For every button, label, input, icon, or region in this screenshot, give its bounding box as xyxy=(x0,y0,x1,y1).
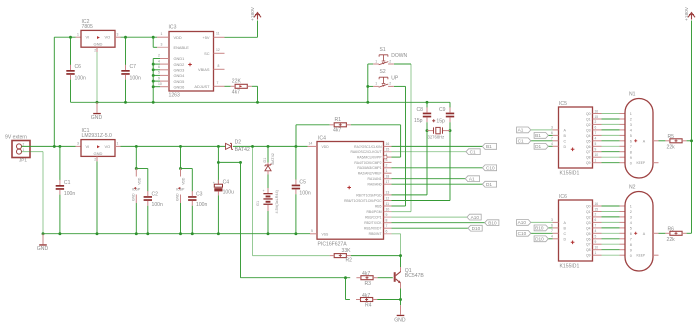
net flag B1 xyxy=(482,144,496,150)
svg-text:2: 2 xyxy=(595,213,597,217)
svg-text:C2: C2 xyxy=(152,191,159,197)
wire R4 to emitter node xyxy=(377,299,400,301)
svg-text:VBIAS: VBIAS xyxy=(198,67,210,72)
svg-text:4: 4 xyxy=(595,229,597,233)
svg-text:2: 2 xyxy=(595,120,597,124)
svg-text:N2: N2 xyxy=(629,185,636,191)
svg-text:100n: 100n xyxy=(196,202,207,208)
svg-text:1: 1 xyxy=(161,32,163,36)
svg-text:22k: 22k xyxy=(667,237,676,243)
svg-text:GND: GND xyxy=(176,193,180,201)
capacitor C3 xyxy=(191,169,193,192)
wire IC2 gnd down xyxy=(96,52,98,102)
diode D2 BAT42 xyxy=(226,143,232,149)
svg-text:VDD: VDD xyxy=(174,35,182,40)
svg-text:R3: R3 xyxy=(365,281,372,287)
net flag C10 xyxy=(482,165,496,171)
svg-text:IC5P: IC5P xyxy=(132,188,141,192)
svg-text:C9: C9 xyxy=(439,107,446,113)
wire RA7 to B1 xyxy=(392,145,483,147)
wire D1 to battery xyxy=(267,175,269,189)
switch S1 DOWN xyxy=(379,55,389,65)
svg-text:8: 8 xyxy=(386,219,388,223)
svg-text:Q5: Q5 xyxy=(586,232,591,236)
svg-text:4: 4 xyxy=(595,137,597,141)
svg-text:1263: 1263 xyxy=(169,93,180,99)
node C7 top xyxy=(124,36,127,39)
svg-text:4k7: 4k7 xyxy=(333,128,341,134)
pin GND2 xyxy=(153,63,160,65)
svg-text:6: 6 xyxy=(630,232,632,236)
svg-text:6: 6 xyxy=(551,224,553,228)
ground rail upper xyxy=(71,101,451,103)
svg-text:PIC16F627A: PIC16F627A xyxy=(318,241,348,247)
svg-text:+180V: +180V xyxy=(250,6,256,21)
svg-text:GND: GND xyxy=(94,42,103,47)
wire vertical 9V feed xyxy=(53,37,55,146)
svg-text:7: 7 xyxy=(630,145,632,149)
net flag A10 xyxy=(467,214,481,220)
svg-text:6: 6 xyxy=(158,65,160,69)
ic IC5 K155ID1 box xyxy=(559,107,593,168)
svg-text:VDD: VDD xyxy=(182,177,186,185)
wire to tube xyxy=(602,254,620,256)
capacitor C9 xyxy=(446,113,454,115)
svg-text:Q4: Q4 xyxy=(586,134,591,138)
svg-text:9: 9 xyxy=(630,156,632,160)
svg-text:Q3: Q3 xyxy=(586,221,591,225)
capacitor C2 xyxy=(147,169,149,192)
wire +180V right bus xyxy=(691,21,693,234)
svg-text:3: 3 xyxy=(630,123,632,127)
ic IC6 K155ID1 box xyxy=(559,200,593,261)
resistor R4 4k7 xyxy=(361,298,373,302)
wire adjust to trimmer xyxy=(225,85,231,87)
svg-text:GND: GND xyxy=(394,317,406,323)
svg-text:6: 6 xyxy=(551,131,553,135)
svg-text:4: 4 xyxy=(630,221,632,225)
wire 9V rail to IC2 VI xyxy=(54,36,75,38)
wire RA3 to C10 xyxy=(392,167,483,169)
svg-text:B1: B1 xyxy=(535,133,541,138)
svg-text:2: 2 xyxy=(94,158,96,162)
wire to tube xyxy=(602,134,620,136)
pin 6 RB0/INT xyxy=(384,233,392,235)
pin IC6 input C xyxy=(553,232,559,234)
svg-text:VI: VI xyxy=(86,35,90,40)
svg-text:C7: C7 xyxy=(130,64,137,70)
svg-text:BAT42: BAT42 xyxy=(235,147,250,153)
nixie tube N1 xyxy=(625,99,653,179)
svg-text:RA4/T0CKI/CMP2: RA4/T0CKI/CMP2 xyxy=(354,161,381,165)
svg-text:0: 0 xyxy=(630,254,632,258)
svg-text:KEEP: KEEP xyxy=(637,161,646,165)
net flag B10 xyxy=(546,227,553,229)
pin IC5 output Q1 xyxy=(593,118,602,120)
wire to tube xyxy=(602,243,620,245)
svg-text:Q4: Q4 xyxy=(586,226,591,230)
net flag B10 xyxy=(485,220,499,226)
svg-text:Q2: Q2 xyxy=(586,123,591,127)
svg-text:GND4: GND4 xyxy=(174,73,186,78)
svg-text:+: + xyxy=(263,189,265,193)
net flag C1 xyxy=(528,140,552,142)
wire RB5 to S2 xyxy=(392,205,406,207)
svg-text:15: 15 xyxy=(595,207,599,211)
svg-text:GND3: GND3 xyxy=(174,68,185,73)
svg-text:Q0: Q0 xyxy=(586,112,591,116)
svg-text:11: 11 xyxy=(216,31,220,35)
svg-text:GND: GND xyxy=(131,193,135,201)
net flag A1 xyxy=(528,129,552,131)
svg-text:RB4/PGM: RB4/PGM xyxy=(366,210,381,214)
svg-text:6: 6 xyxy=(630,140,632,144)
pin IC3 SC 12 xyxy=(214,52,225,54)
svg-text:C: C xyxy=(564,232,567,236)
svg-text:32768Hz: 32768Hz xyxy=(428,135,445,140)
wire to tube xyxy=(602,211,620,213)
svg-text:2: 2 xyxy=(389,82,391,86)
svg-text:Q7: Q7 xyxy=(586,243,591,247)
battery G1 xyxy=(267,188,269,193)
capacitor C1 xyxy=(59,146,61,180)
svg-text:14: 14 xyxy=(309,142,313,146)
wire IC3 gnd bus xyxy=(152,59,154,103)
svg-text:A1: A1 xyxy=(518,128,524,133)
wire C4 column xyxy=(217,146,219,183)
svg-text:C6: C6 xyxy=(75,64,82,70)
svg-text:C4: C4 xyxy=(223,179,230,185)
svg-text:R1: R1 xyxy=(335,117,342,123)
svg-text:Q1: Q1 xyxy=(586,210,591,214)
svg-text:15p: 15p xyxy=(414,118,423,124)
pin IC3 VBIAS 8 xyxy=(214,68,225,70)
svg-text:+180V: +180V xyxy=(684,6,690,21)
wire to +180V xyxy=(225,36,258,38)
svg-text:0: 0 xyxy=(630,161,632,165)
wire S1 left xyxy=(368,63,373,65)
svg-text:K155ID1: K155ID1 xyxy=(560,171,580,177)
svg-text:5: 5 xyxy=(158,71,160,75)
svg-text:B10: B10 xyxy=(488,221,497,226)
svg-text:GND: GND xyxy=(37,246,49,252)
svg-text:4: 4 xyxy=(551,142,553,146)
wire R4 branch xyxy=(345,278,347,300)
svg-text:R4: R4 xyxy=(365,303,372,309)
wire to tube xyxy=(602,162,620,164)
svg-text:7: 7 xyxy=(551,136,553,140)
svg-text:Q2: Q2 xyxy=(586,215,591,219)
wire D2 to backed rail xyxy=(233,145,308,147)
svg-text:9: 9 xyxy=(595,240,597,244)
svg-text:D1: D1 xyxy=(486,182,492,187)
svg-text:9: 9 xyxy=(595,148,597,152)
svg-text:BC547B: BC547B xyxy=(405,273,425,279)
svg-text:8: 8 xyxy=(630,150,632,154)
wire C5 column xyxy=(295,146,297,179)
svg-text:D1: D1 xyxy=(535,144,541,149)
svg-text:4: 4 xyxy=(630,129,632,133)
svg-text:7: 7 xyxy=(386,224,388,228)
svg-text:C1: C1 xyxy=(470,150,476,155)
svg-text:1: 1 xyxy=(375,59,377,63)
svg-text:G1: G1 xyxy=(256,201,260,206)
wire R3 to base xyxy=(378,277,393,279)
pin anode N1 xyxy=(634,139,637,142)
wire C6 bottom xyxy=(70,80,72,103)
pin IC6 output Q7 xyxy=(593,243,602,245)
wire to tube xyxy=(602,227,620,229)
svg-text:5: 5 xyxy=(311,229,313,233)
pin 15 RA6/OSC2/CLKOUT xyxy=(384,151,392,153)
svg-text:BAT42: BAT42 xyxy=(271,153,275,164)
pin 3 RA4/T0CKI/CMP2 xyxy=(384,161,392,163)
svg-text:9: 9 xyxy=(158,76,160,80)
svg-text:8: 8 xyxy=(630,243,632,247)
pin IC6 output Q5 xyxy=(593,232,602,234)
wire RB4 to S1 (pale) xyxy=(392,211,412,213)
svg-text:RB3/CCP1: RB3/CCP1 xyxy=(365,216,381,220)
wire S2 left xyxy=(368,85,373,87)
wire IC1 gnd down xyxy=(96,161,98,233)
svg-text:UP: UP xyxy=(391,75,399,81)
net flag D10 xyxy=(468,225,482,231)
svg-text:2: 2 xyxy=(630,210,632,214)
pin IC5 output Q4 xyxy=(593,134,602,136)
wire to tube xyxy=(602,118,620,120)
svg-text:4k7: 4k7 xyxy=(362,293,370,299)
pin IC6 output Q3 xyxy=(593,221,602,223)
pin IC5 output Q3 xyxy=(593,129,602,131)
pin IC5 output Q2 xyxy=(593,123,602,125)
crystal Q 32768Hz xyxy=(426,129,429,132)
svg-text:RA7/OSC1/CLKIN: RA7/OSC1/CLKIN xyxy=(354,145,382,149)
net flag B1 xyxy=(546,134,553,136)
svg-text:3: 3 xyxy=(77,142,79,146)
svg-text:IC6: IC6 xyxy=(559,194,567,200)
wire IC2 out xyxy=(121,36,158,38)
op-amp IC3 box xyxy=(169,32,214,92)
svg-text:VO: VO xyxy=(105,35,111,40)
svg-text:18: 18 xyxy=(386,175,390,179)
svg-text:7: 7 xyxy=(595,131,597,135)
wire RB3 to A10 (pale) xyxy=(392,216,468,218)
svg-text:6: 6 xyxy=(595,126,597,130)
svg-text:RA2/AN2/VREF: RA2/AN2/VREF xyxy=(358,172,382,176)
svg-text:100n: 100n xyxy=(299,191,310,197)
svg-text:SC: SC xyxy=(204,51,210,56)
pin IC6 input A xyxy=(553,221,559,223)
wire to tube xyxy=(602,129,620,131)
svg-text:VI: VI xyxy=(86,144,90,149)
pin 8 RB2/TX/CK xyxy=(384,222,392,224)
wire emitter to gnd xyxy=(400,300,402,306)
svg-text:7: 7 xyxy=(551,229,553,233)
pin IC6 output Q1 xyxy=(593,211,602,213)
wire to tube xyxy=(602,113,620,115)
pin GND6 xyxy=(153,86,160,88)
wire emitter xyxy=(400,283,402,289)
pin 16 RA7/OSC1/CLKIN xyxy=(384,145,392,147)
svg-text:GND1: GND1 xyxy=(174,56,185,61)
resistor 22K/4k7 trimmer xyxy=(235,84,247,88)
pin IC5 output Q0 xyxy=(593,113,602,115)
svg-text:12: 12 xyxy=(216,48,220,52)
svg-text:RB6/T1OSO/T1CKI/PGC: RB6/T1OSO/T1CKI/PGC xyxy=(344,199,382,203)
net flag A1 xyxy=(465,176,479,182)
pin 1 RA2/AN2/VREF xyxy=(384,172,392,174)
svg-text:A1: A1 xyxy=(469,177,475,182)
wire to tube xyxy=(602,123,620,125)
wire to tube xyxy=(602,205,620,207)
wire RA1 to A1 xyxy=(392,178,466,180)
svg-text:100n: 100n xyxy=(75,75,86,81)
wire C9 to crystal xyxy=(449,122,451,130)
wire S1 to RB4 (pale) xyxy=(410,64,412,212)
svg-text:Q7: Q7 xyxy=(586,150,591,154)
svg-text:RB0/INT: RB0/INT xyxy=(369,232,382,236)
svg-text:IC4: IC4 xyxy=(318,135,326,141)
pin 7 RB1/RX/DT xyxy=(384,227,392,229)
svg-text:JP1: JP1 xyxy=(19,158,27,163)
svg-text:22k: 22k xyxy=(667,144,676,150)
wire R5 to +180V xyxy=(687,140,692,142)
svg-text:15: 15 xyxy=(386,148,390,152)
svg-text:B10: B10 xyxy=(535,226,544,231)
wire to tube xyxy=(602,249,620,251)
svg-text:ADJUST: ADJUST xyxy=(194,84,210,89)
svg-text:5: 5 xyxy=(595,142,597,146)
svg-text:D10: D10 xyxy=(535,237,544,242)
wire C8 top xyxy=(426,102,428,108)
svg-text:D: D xyxy=(564,145,567,149)
capacitor C4 100u polarized xyxy=(217,180,219,184)
pin GND3 xyxy=(153,69,160,71)
pin IC6 output Q6 xyxy=(593,238,602,240)
svg-text:5: 5 xyxy=(630,227,632,231)
svg-text:4: 4 xyxy=(386,153,388,157)
svg-text:7: 7 xyxy=(217,81,219,85)
svg-text:7805: 7805 xyxy=(82,24,93,30)
svg-text:C10: C10 xyxy=(486,166,495,171)
pin 18 RA1/AN1 xyxy=(384,178,392,180)
wire branch to R loops xyxy=(218,161,240,163)
pin 4 RA5/MCLR/VPP xyxy=(384,155,388,159)
pin IC1 GND xyxy=(96,156,98,161)
pin IC3 ADJUST 7 xyxy=(214,85,225,87)
wire to tube xyxy=(602,145,620,147)
svg-text:VDD: VDD xyxy=(322,145,330,149)
wire S2 right xyxy=(394,85,406,87)
svg-text:D2: D2 xyxy=(235,139,242,145)
svg-text:GND2: GND2 xyxy=(174,62,185,67)
svg-text:6: 6 xyxy=(386,230,388,234)
svg-text:22K: 22K xyxy=(232,78,242,84)
svg-text:4k7: 4k7 xyxy=(232,89,240,95)
svg-text:C: C xyxy=(564,139,567,143)
svg-text:A10: A10 xyxy=(471,215,480,220)
svg-text:1: 1 xyxy=(375,82,377,86)
svg-text:D: D xyxy=(564,237,567,241)
wire C7 top xyxy=(125,37,127,65)
svg-text:2: 2 xyxy=(630,118,632,122)
pin 13 RB7/T1OSI/PGD xyxy=(384,194,392,196)
svg-text:Q0: Q0 xyxy=(586,205,591,209)
wire to tube xyxy=(602,156,620,158)
nixie tube N2 xyxy=(625,192,653,272)
svg-text:D10: D10 xyxy=(472,226,481,231)
wire to tube xyxy=(602,221,620,223)
svg-text:Q9: Q9 xyxy=(586,161,591,165)
wire IC3 enable tap xyxy=(152,37,154,47)
pin 9 RB3/CCP1 xyxy=(384,216,392,218)
pin IC6 output Q2 xyxy=(593,216,602,218)
svg-text:N1: N1 xyxy=(629,92,636,98)
svg-text:1: 1 xyxy=(117,142,119,146)
pin IC2 GND xyxy=(96,47,98,52)
wire R3 loop xyxy=(240,162,242,277)
node junction C6 top xyxy=(69,36,72,39)
regulator IC1 LM2931Z-5.0 xyxy=(76,145,82,147)
pin GND4 xyxy=(153,74,160,76)
svg-text:15p: 15p xyxy=(436,119,445,125)
svg-text:1: 1 xyxy=(77,32,79,36)
pin 11 RB5 xyxy=(384,205,392,207)
svg-text:17: 17 xyxy=(386,180,390,184)
net flag C1 xyxy=(466,149,480,155)
svg-text:RA0/AN0: RA0/AN0 xyxy=(368,183,382,187)
pin IC6 output Q9 xyxy=(593,254,602,256)
wire to tube xyxy=(602,238,620,240)
power symbol IC5P xyxy=(135,146,137,168)
node IC3 feed xyxy=(152,36,155,39)
pin IC5 output Q7 xyxy=(593,151,602,153)
power symbol IC6P xyxy=(180,146,182,168)
pin IC5 input B xyxy=(553,134,559,136)
wire trimmer to gnd rail xyxy=(252,85,258,87)
svg-text:33K: 33K xyxy=(342,248,352,254)
svg-text:RB5: RB5 xyxy=(375,204,382,208)
svg-text:2: 2 xyxy=(94,48,96,52)
wire collector xyxy=(400,256,402,267)
svg-text:100n: 100n xyxy=(152,202,163,208)
wire C7 bottom xyxy=(125,80,127,103)
svg-text:Q6: Q6 xyxy=(586,237,591,241)
svg-text:ENABLE: ENABLE xyxy=(174,45,190,50)
capacitor C5 xyxy=(292,185,300,187)
resistor R6 22k xyxy=(670,231,682,235)
pin IC5 output Q9 xyxy=(593,162,602,164)
wire to tube xyxy=(602,151,620,153)
pin GND5 xyxy=(153,80,160,82)
wire JP1 pin2 to rail xyxy=(22,145,76,147)
svg-text:VDD: VDD xyxy=(137,177,141,185)
svg-text:R5: R5 xyxy=(668,134,675,140)
wire to tube xyxy=(602,216,620,218)
svg-text:9: 9 xyxy=(386,213,388,217)
resistor R2 33K xyxy=(334,254,346,258)
svg-text:KEEP: KEEP xyxy=(637,254,646,258)
svg-text:10: 10 xyxy=(595,153,599,157)
svg-text:K155ID1: K155ID1 xyxy=(560,264,580,270)
wire RB1 to D10 xyxy=(392,227,469,229)
capacitor C6 xyxy=(66,70,74,72)
wire to tube xyxy=(602,140,620,142)
svg-text:S2: S2 xyxy=(380,69,386,75)
wire MCLR xyxy=(392,156,401,158)
wire RB2 to B10 xyxy=(392,222,485,224)
capacitor C8 xyxy=(423,113,431,115)
